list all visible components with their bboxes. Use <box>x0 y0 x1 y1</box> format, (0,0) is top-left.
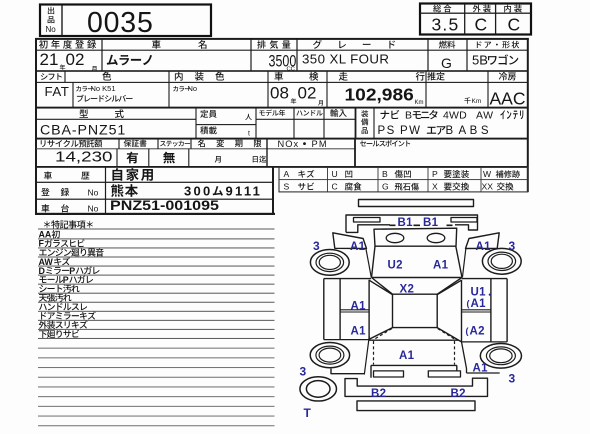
tail light right <box>428 371 460 377</box>
hdr mileage <box>339 72 348 81</box>
svg-text:02: 02 <box>66 50 85 69</box>
svg-text:W: W <box>483 169 492 179</box>
svg-text:A2: A2 <box>470 326 485 338</box>
hdr sales-point <box>360 140 410 147</box>
hdr recycle <box>41 140 103 148</box>
left rear door bottom <box>324 339 369 341</box>
rear bottom bar <box>357 401 475 411</box>
left a-pillar line <box>366 249 371 278</box>
tailgate top edge <box>369 339 459 341</box>
val estimate <box>464 97 470 103</box>
svg-text:T: T <box>304 406 312 420</box>
hdr shaken <box>274 72 283 81</box>
svg-text:4WD: 4WD <box>443 110 467 122</box>
val warranty <box>127 152 139 164</box>
grade box frame <box>420 4 531 35</box>
svg-text:3: 3 <box>300 365 307 379</box>
hdr fuel <box>439 41 456 49</box>
svg-text:A1: A1 <box>471 298 487 310</box>
svg-text:5B: 5B <box>472 53 488 68</box>
svg-text:F: F <box>39 239 45 249</box>
svg-text:U: U <box>332 169 338 179</box>
left window slants <box>369 280 392 339</box>
val name-change <box>215 156 221 163</box>
hdr capacity <box>200 110 216 118</box>
row line y50 <box>36 50 528 51</box>
svg-text:B1: B1 <box>398 217 414 229</box>
remark 3 <box>39 248 103 256</box>
remarks header <box>44 220 93 228</box>
remark 6 <box>39 276 63 283</box>
svg-text:Km: Km <box>472 98 482 105</box>
svg-text:300: 300 <box>184 183 213 198</box>
lot number box <box>40 5 211 37</box>
lot label <box>48 7 54 14</box>
hdr import <box>330 109 346 117</box>
row line y82.5 <box>36 82 528 83</box>
wheel rear-right <box>480 344 521 369</box>
hdr car-history <box>44 171 52 179</box>
wheel rear-left <box>310 343 349 368</box>
svg-text:C: C <box>332 182 338 192</box>
hdr chassis-no <box>41 204 49 212</box>
grade headers <box>433 5 451 13</box>
table outer border <box>35 38 529 40</box>
col lines row1 <box>101 39 102 71</box>
svg-text:B2: B2 <box>371 388 386 400</box>
row line y124.6 <box>196 124 256 125</box>
col lines row4 shared <box>266 139 267 167</box>
headlight panel <box>374 228 457 246</box>
right sill outer <box>506 279 508 342</box>
svg-text:C: C <box>508 15 521 35</box>
left quarter crease <box>364 336 369 375</box>
hdr name-change <box>198 139 262 147</box>
right quarter crease <box>462 342 467 373</box>
svg-text:21: 21 <box>40 50 59 69</box>
svg-text:A1: A1 <box>473 363 489 375</box>
row line y119 segs <box>36 119 196 120</box>
right window slants <box>437 280 461 342</box>
left door dividers <box>340 310 369 312</box>
svg-text:A1: A1 <box>433 260 449 272</box>
svg-text:P: P <box>63 275 69 285</box>
front bumper top bar <box>359 200 474 207</box>
left window line <box>368 280 370 339</box>
svg-text:U1: U1 <box>471 287 487 299</box>
remark 12 <box>39 330 79 338</box>
right shoulder line <box>462 278 507 280</box>
svg-text:3.5: 3.5 <box>432 14 460 34</box>
equip line1 <box>380 110 399 119</box>
svg-text:A1: A1 <box>350 241 366 253</box>
svg-text:B1: B1 <box>423 217 439 229</box>
val sticker <box>163 152 175 164</box>
col lines row3 <box>195 108 196 139</box>
hdr color <box>102 72 111 81</box>
hdr reg-no <box>41 188 49 196</box>
headlight right <box>427 233 445 242</box>
row line y166.9 <box>36 166 528 168</box>
col lines history rows <box>105 167 106 214</box>
svg-text:02: 02 <box>298 84 317 103</box>
val car-history <box>112 168 152 181</box>
legend frame <box>279 167 528 192</box>
equip label <box>361 110 368 117</box>
roof panel <box>393 294 438 327</box>
col lines row2 <box>64 71 65 82</box>
rear bumper <box>345 378 488 396</box>
val int-color <box>173 86 190 91</box>
svg-text:B: B <box>382 169 388 179</box>
hdr shift <box>41 73 62 80</box>
right a-pillar line <box>462 249 465 278</box>
remark 10 <box>41 311 96 319</box>
headlight left <box>386 233 404 242</box>
wheel front-left <box>310 250 349 276</box>
svg-text:No: No <box>188 84 198 93</box>
svg-text:X: X <box>432 182 438 192</box>
left shoulder line <box>324 278 371 280</box>
val reg-no <box>111 184 138 197</box>
svg-text:(: ( <box>466 326 469 336</box>
row line y213.9 <box>35 213 275 215</box>
svg-text:t: t <box>248 131 250 138</box>
svg-text:A1: A1 <box>351 326 367 338</box>
remarks rule lines <box>38 229 275 230</box>
remark 9 <box>39 303 87 310</box>
svg-text:PW: PW <box>400 125 422 137</box>
windshield <box>372 278 463 295</box>
svg-text:P: P <box>432 169 438 179</box>
front bumper <box>346 215 478 232</box>
right door dividers <box>462 310 491 312</box>
svg-text:14,230: 14,230 <box>55 150 113 166</box>
wheel front-right <box>482 248 521 274</box>
svg-text:PNZ51-001095: PNZ51-001095 <box>110 197 219 213</box>
hdr sticker <box>160 141 190 147</box>
svg-text:AAC: AAC <box>490 89 526 109</box>
right window line <box>461 280 463 342</box>
svg-text:A1: A1 <box>476 241 492 253</box>
svg-text:3: 3 <box>509 239 516 253</box>
svg-text:No: No <box>88 204 99 214</box>
col lines row4 header <box>118 139 119 149</box>
svg-text:3: 3 <box>313 239 320 253</box>
row line y148.8 <box>36 148 355 149</box>
svg-text:B: B <box>446 125 454 137</box>
svg-text:No: No <box>46 25 57 34</box>
svg-text:B2: B2 <box>451 388 466 400</box>
svg-text:G: G <box>441 55 452 71</box>
remark 11 <box>39 320 88 328</box>
hdr warranty <box>124 140 147 147</box>
svg-text:0035: 0035 <box>87 7 154 39</box>
left front fender <box>333 233 367 249</box>
val car-name <box>107 55 152 66</box>
hdr displacement <box>257 40 290 48</box>
val color <box>76 86 93 91</box>
hood sides <box>372 246 463 277</box>
left quarter corner <box>331 369 365 374</box>
svg-text:C: C <box>475 15 488 35</box>
svg-text:No: No <box>88 187 99 197</box>
row line y138.5 <box>36 138 528 140</box>
rear panel edge <box>371 365 457 377</box>
svg-text:FAT: FAT <box>45 84 70 99</box>
svg-text:PM: PM <box>312 139 328 149</box>
svg-text:AW: AW <box>476 110 494 122</box>
row line y199 <box>36 199 273 200</box>
svg-text:350 XL FOUR: 350 XL FOUR <box>302 51 389 66</box>
svg-text:X2: X2 <box>400 284 415 296</box>
svg-text:NOx: NOx <box>278 139 300 149</box>
svg-text:CC: CC <box>287 67 295 73</box>
svg-text:A1: A1 <box>351 301 367 313</box>
col lines row4 value <box>116 149 117 167</box>
left door outer <box>339 279 341 340</box>
right rear door bottom <box>462 341 508 343</box>
tail light left <box>374 371 404 377</box>
spare tire <box>300 377 337 401</box>
hdr estimate <box>427 72 444 80</box>
row line y107.5 <box>36 107 528 109</box>
row line y71 <box>36 70 528 72</box>
svg-text:ABS: ABS <box>459 125 493 137</box>
hdr model-year <box>259 109 285 116</box>
svg-text:S: S <box>284 182 290 192</box>
remark 8 <box>39 293 72 301</box>
right quarter lower line <box>467 372 500 374</box>
svg-text:102,986: 102,986 <box>345 85 415 105</box>
remark 7 <box>39 284 79 292</box>
cowl line <box>372 277 463 279</box>
hdr model-code <box>79 109 88 117</box>
svg-text:08: 08 <box>270 84 289 103</box>
svg-text:(: ( <box>467 299 470 309</box>
svg-text:9111: 9111 <box>226 183 263 198</box>
hdr door-shape <box>477 41 519 48</box>
svg-text:U2: U2 <box>388 260 403 272</box>
svg-text:XX: XX <box>482 182 494 192</box>
svg-text:D: D <box>39 266 46 276</box>
left sill outer <box>323 279 325 340</box>
right door outer <box>490 279 492 342</box>
svg-text:3: 3 <box>509 372 516 386</box>
svg-text:G: G <box>382 182 389 192</box>
svg-text:B: B <box>405 110 412 122</box>
row line y182.3 <box>36 182 273 183</box>
svg-text:A1: A1 <box>399 350 415 362</box>
svg-text:CBA-PNZ51: CBA-PNZ51 <box>40 122 126 138</box>
hdr handle <box>296 110 322 116</box>
svg-text:No K51: No K51 <box>91 84 116 93</box>
svg-text:A: A <box>284 169 290 179</box>
svg-text:P: P <box>69 266 75 276</box>
right front fender <box>466 233 500 249</box>
hdr car-name <box>152 40 161 49</box>
hdr int-color <box>175 72 224 81</box>
hdr aircon <box>499 72 516 80</box>
tailgate dashed sides <box>374 341 455 365</box>
svg-text:Km: Km <box>415 100 424 106</box>
hdr grade <box>313 40 395 49</box>
svg-text:PS: PS <box>378 125 396 137</box>
hdr first-reg <box>39 40 96 49</box>
